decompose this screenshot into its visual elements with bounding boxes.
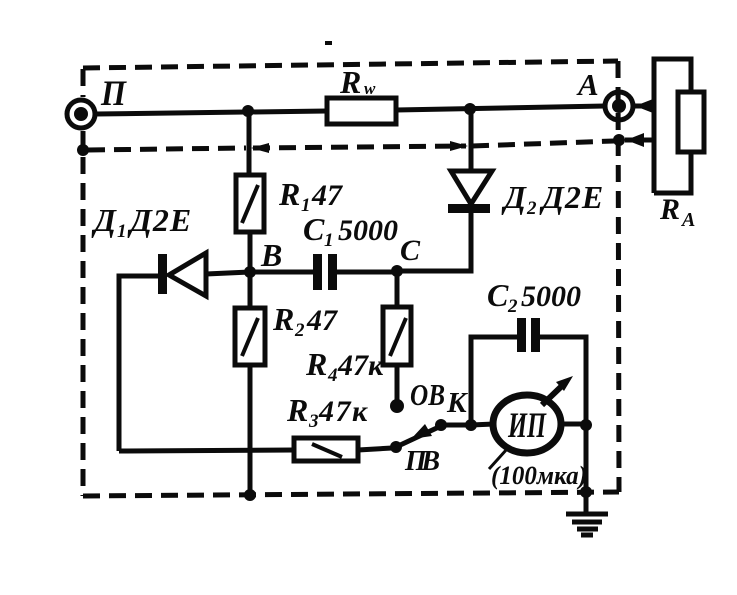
node junction K [465, 419, 477, 431]
svg-text:C: C [400, 234, 421, 267]
junction dot on bottom border [244, 489, 256, 501]
dashed dimension line (shunt section) [88, 141, 614, 150]
svg-text:В: В [260, 237, 282, 273]
wire: C1 to node C [337, 270, 397, 275]
svg-text:Д2Е: Д2Е [539, 179, 604, 215]
wire: D1 cathode to left branch corner [119, 276, 158, 451]
wire: top node down to R1 [247, 111, 252, 175]
node C [391, 265, 403, 277]
dimension arrowhead left (points at R1 branch) [251, 143, 269, 153]
svg-text:47к: 47к [318, 395, 369, 428]
wire: C2 loop [471, 337, 586, 425]
svg-text:2: 2 [294, 320, 305, 341]
svg-text:w: w [364, 79, 376, 98]
svg-text:1: 1 [324, 230, 334, 251]
svg-text:К: К [446, 387, 468, 419]
svg-text:C: C [487, 277, 509, 313]
wire: node C right and up to D2 [397, 212, 471, 271]
svg-text:5000: 5000 [338, 214, 398, 247]
label C1 5000 [303, 211, 398, 251]
label R3 47к [286, 392, 369, 432]
svg-text:A: A [680, 209, 695, 231]
switch ПВ pivot dot [390, 441, 402, 453]
capacitor C1 [313, 254, 337, 290]
svg-text:Д: Д [501, 179, 527, 215]
wire: R4 down to OB terminal [395, 365, 400, 402]
label R1 47 [278, 176, 343, 216]
svg-text:47к: 47к [337, 349, 384, 382]
label Д1 Д2Е [91, 202, 192, 242]
svg-text:2: 2 [507, 296, 518, 317]
ground [566, 514, 608, 535]
svg-text:Д2Е: Д2Е [127, 202, 192, 238]
svg-text:R: R [278, 176, 300, 212]
wire: R2 down to bottom border dot [248, 365, 253, 494]
terminal ОВ (open contact) [390, 399, 404, 413]
dimension arrowhead right (points at D2 branch) [450, 141, 468, 151]
wire: top node down to D2 [469, 109, 474, 171]
wire: node C down to R4 [395, 272, 400, 307]
svg-text:ПВ: ПВ [404, 446, 440, 477]
meter pointer line to label [489, 449, 507, 469]
resistor R2 (with slash) [235, 308, 265, 365]
label RA [659, 193, 695, 231]
svg-text:R: R [272, 301, 294, 337]
svg-text:47: 47 [306, 304, 338, 337]
svg-text:A: A [576, 67, 599, 102]
svg-text:47: 47 [311, 179, 343, 212]
svg-text:R: R [305, 346, 327, 382]
node B [244, 266, 256, 278]
svg-text:1: 1 [117, 221, 127, 242]
terminal A [605, 92, 633, 120]
svg-text:ОВ: ОВ [410, 377, 445, 412]
resistor R1 (with slash) [236, 175, 264, 232]
label Д2 Д2Е [501, 179, 604, 219]
wire: left branch horizontal to R3 [119, 450, 294, 451]
diode Д1 [158, 253, 206, 296]
switch arm with arrowhead [396, 424, 441, 447]
wire: D1 anode to node B [206, 272, 250, 274]
svg-text:C: C [303, 211, 325, 247]
resistor R3 (with slash) [294, 438, 358, 461]
label R2 47 [272, 301, 338, 341]
wire: down to ground [584, 425, 589, 514]
wire: Rw to terminal A [396, 106, 605, 110]
meter ИП [493, 376, 573, 453]
label R4 47к [305, 346, 384, 386]
resistor R4 (with slash) [383, 307, 411, 365]
dashed enclosure border [83, 61, 619, 496]
svg-text:4: 4 [327, 365, 338, 386]
junction dot below A on right border [613, 134, 625, 146]
svg-text:(100мка): (100мка) [491, 461, 587, 490]
wire: meter right to C2 right leg [560, 422, 586, 427]
svg-text:ИП: ИП [507, 405, 546, 445]
wire: R3 to switch pivot [358, 448, 392, 450]
wire: top rail П to Rw [96, 111, 327, 114]
wire: node to meter left [471, 424, 494, 425]
wire: border dot to external loop with left arrow [625, 138, 654, 143]
node junction at D2 branch [464, 103, 476, 115]
wire: R1 to node B [248, 232, 253, 272]
external loop wiring for RA [654, 59, 691, 193]
capacitor C2 [517, 318, 540, 352]
svg-text:R: R [659, 193, 680, 226]
svg-text:Д: Д [91, 202, 117, 238]
wire: node B down to R2 [248, 272, 253, 308]
resistor Rш (Rw) [327, 98, 396, 124]
wire: contact to meter node [441, 423, 471, 428]
junction dot meter right [580, 419, 592, 431]
svg-text:R: R [286, 392, 308, 428]
label Rw [339, 64, 376, 100]
diode Д2 [448, 171, 492, 213]
label C2 5000 [487, 277, 581, 317]
svg-text:П: П [100, 73, 127, 113]
wire: terminal A to external loop with left arrow [633, 104, 654, 109]
stray ink speck [325, 41, 332, 45]
terminal П [67, 100, 95, 128]
junction dot on bottom border [580, 486, 592, 498]
junction dot on left border [77, 144, 89, 156]
svg-text:R: R [339, 64, 361, 100]
wire: node B to C1 [250, 270, 313, 275]
switch contact dot [435, 419, 447, 431]
node junction at R1 branch [242, 105, 254, 117]
svg-text:3: 3 [308, 411, 319, 432]
svg-text:2: 2 [526, 198, 537, 219]
svg-text:5000: 5000 [521, 280, 581, 313]
resistor RA [678, 92, 704, 152]
